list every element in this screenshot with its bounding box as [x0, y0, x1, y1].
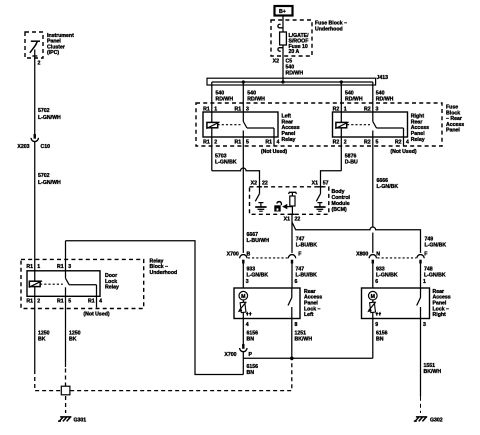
- svg-text:L-BU/WH: L-BU/WH: [247, 238, 270, 244]
- svg-text:1: 1: [214, 107, 217, 113]
- svg-text:3: 3: [376, 107, 379, 113]
- svg-text:BN: BN: [247, 337, 255, 343]
- svg-text:R1: R1: [235, 107, 242, 113]
- svg-text:Relay: Relay: [105, 285, 119, 291]
- svg-text:L-GN/BK: L-GN/BK: [247, 272, 269, 278]
- svg-text:RD/WH: RD/WH: [247, 97, 265, 103]
- svg-text:Left: Left: [304, 312, 314, 318]
- svg-text:5: 5: [246, 139, 249, 145]
- svg-text:Underhood: Underhood: [315, 26, 343, 32]
- svg-text:X700: X700: [224, 352, 236, 358]
- svg-text:R1: R1: [265, 139, 272, 145]
- svg-text:3: 3: [423, 322, 426, 328]
- svg-text:3: 3: [246, 279, 249, 285]
- svg-text:R1: R1: [235, 139, 242, 145]
- svg-text:57: 57: [323, 181, 329, 187]
- svg-text:L-GN/BK: L-GN/BK: [425, 242, 447, 248]
- svg-text:4: 4: [246, 322, 249, 328]
- svg-text:C10: C10: [41, 144, 51, 150]
- svg-text:R2: R2: [395, 139, 402, 145]
- svg-text:2: 2: [38, 60, 41, 66]
- svg-text:2: 2: [214, 139, 217, 145]
- svg-text:J413: J413: [377, 75, 389, 81]
- svg-text:R2: R2: [333, 107, 340, 113]
- svg-text:1: 1: [344, 107, 347, 113]
- svg-text:N: N: [376, 251, 380, 257]
- svg-text:Underhood: Underhood: [150, 270, 178, 276]
- svg-text:RD/WH: RD/WH: [216, 97, 234, 103]
- svg-text:BN: BN: [376, 337, 384, 343]
- svg-text:R1: R1: [57, 264, 64, 270]
- svg-text:Panel: Panel: [446, 128, 460, 134]
- svg-text:R2: R2: [333, 139, 340, 145]
- svg-text:2: 2: [37, 299, 40, 305]
- svg-text:4: 4: [99, 299, 102, 305]
- svg-text:F: F: [424, 251, 427, 257]
- svg-text:Relay: Relay: [282, 137, 296, 143]
- svg-text:L-BU/BK: L-BU/BK: [296, 242, 318, 248]
- svg-text:RD/WH: RD/WH: [376, 97, 394, 103]
- svg-text:(Not Used): (Not Used): [261, 149, 287, 155]
- svg-text:P: P: [249, 352, 253, 358]
- svg-text:X2: X2: [251, 181, 257, 187]
- svg-text:22: 22: [262, 181, 268, 187]
- svg-text:L-GN/BK: L-GN/BK: [215, 159, 237, 165]
- svg-text:F: F: [298, 251, 301, 257]
- svg-text:4: 4: [277, 139, 280, 145]
- svg-text:X1: X1: [312, 181, 318, 187]
- svg-text:8: 8: [295, 322, 298, 328]
- svg-text:X800: X800: [356, 251, 368, 257]
- svg-text:(BCM): (BCM): [332, 207, 348, 213]
- svg-text:B+: B+: [279, 9, 286, 15]
- svg-text:Right: Right: [433, 312, 447, 318]
- svg-text:R1: R1: [57, 299, 64, 305]
- svg-text:R1: R1: [203, 107, 210, 113]
- svg-text:5: 5: [68, 299, 71, 305]
- svg-text:BN: BN: [247, 370, 255, 376]
- svg-text:9: 9: [375, 322, 378, 328]
- svg-text:X1: X1: [284, 216, 290, 222]
- svg-text:L-BU/BK: L-BU/BK: [296, 272, 318, 278]
- svg-text:5: 5: [376, 139, 379, 145]
- svg-text:X700: X700: [227, 251, 239, 257]
- svg-text:(Not Used): (Not Used): [83, 312, 109, 318]
- svg-text:3: 3: [246, 107, 249, 113]
- svg-text:5702: 5702: [38, 173, 50, 179]
- svg-text:X203: X203: [17, 144, 29, 150]
- svg-text:6: 6: [375, 279, 378, 285]
- svg-text:(IPC): (IPC): [47, 50, 59, 56]
- svg-text:R1: R1: [88, 299, 95, 305]
- svg-text:RD/WH: RD/WH: [345, 97, 363, 103]
- svg-text:L-GN/WH: L-GN/WH: [38, 115, 61, 121]
- svg-text:G302: G302: [430, 418, 443, 424]
- svg-text:M: M: [241, 294, 245, 300]
- svg-text:R2: R2: [364, 107, 371, 113]
- svg-text:BK/WH: BK/WH: [295, 337, 313, 343]
- svg-text:BK/WH: BK/WH: [424, 369, 442, 375]
- svg-text:RD/WH: RD/WH: [286, 70, 304, 76]
- svg-text:2: 2: [344, 139, 347, 145]
- svg-text:R1: R1: [26, 264, 33, 270]
- svg-text:G301: G301: [74, 418, 87, 424]
- svg-text:L-GN/BK: L-GN/BK: [424, 272, 446, 278]
- svg-text:5702: 5702: [38, 108, 50, 114]
- svg-text:22: 22: [295, 216, 301, 222]
- svg-text:M: M: [371, 294, 375, 300]
- svg-text:X2: X2: [273, 58, 279, 64]
- svg-text:1: 1: [37, 264, 40, 270]
- svg-text:4: 4: [406, 139, 409, 145]
- svg-text:BK: BK: [69, 337, 77, 343]
- svg-text:R2: R2: [364, 139, 371, 145]
- svg-text:L-GN/WH: L-GN/WH: [38, 180, 61, 186]
- svg-text:1: 1: [423, 279, 426, 285]
- svg-text:R1: R1: [203, 139, 210, 145]
- svg-text:Relay: Relay: [411, 137, 425, 143]
- svg-text:BK: BK: [38, 337, 46, 343]
- svg-text:D-BU: D-BU: [345, 159, 358, 165]
- svg-text:L-GN/BK: L-GN/BK: [376, 272, 398, 278]
- svg-text:(Not Used): (Not Used): [390, 149, 416, 155]
- svg-text:3: 3: [68, 264, 71, 270]
- svg-text:R1: R1: [26, 299, 33, 305]
- svg-text:6: 6: [295, 279, 298, 285]
- svg-text:20 A: 20 A: [289, 49, 300, 55]
- svg-text:L-GN/BK: L-GN/BK: [377, 184, 399, 190]
